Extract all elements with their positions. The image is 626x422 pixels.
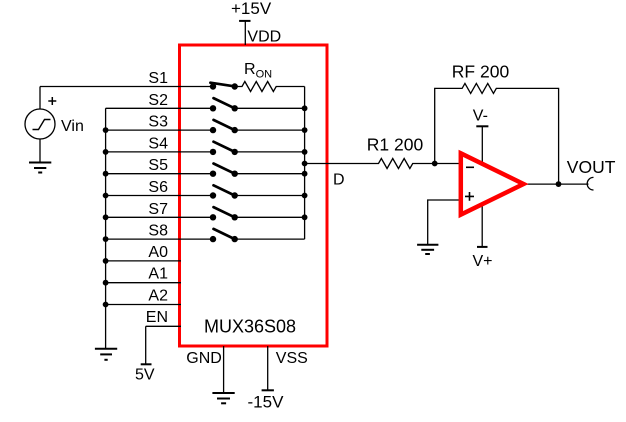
svg-text:VOUT: VOUT (567, 157, 616, 177)
svg-text:V+: V+ (473, 253, 493, 270)
svg-text:S4: S4 (148, 135, 168, 152)
svg-text:RF 200: RF 200 (452, 62, 510, 82)
svg-text:D: D (333, 172, 345, 189)
svg-text:VDD: VDD (247, 29, 281, 46)
svg-text:S1: S1 (148, 70, 168, 87)
svg-text:S6: S6 (148, 179, 168, 196)
svg-text:S5: S5 (148, 157, 168, 174)
svg-text:5V: 5V (135, 367, 155, 384)
svg-text:R1 200: R1 200 (367, 134, 424, 154)
svg-text:MUX36S08: MUX36S08 (204, 316, 296, 336)
svg-text:EN: EN (146, 309, 168, 326)
svg-text:-15V: -15V (248, 392, 285, 411)
svg-text:+15V: +15V (231, 0, 272, 18)
svg-text:S2: S2 (148, 92, 168, 109)
svg-text:VSS: VSS (276, 350, 308, 367)
svg-text:A1: A1 (148, 266, 168, 283)
svg-text:S7: S7 (148, 201, 168, 218)
svg-text:A2: A2 (148, 288, 168, 305)
svg-text:Vin: Vin (61, 118, 84, 135)
svg-text:GND: GND (186, 350, 222, 367)
svg-text:V-: V- (473, 107, 488, 124)
svg-text:S3: S3 (148, 114, 168, 131)
svg-text:S8: S8 (148, 223, 168, 240)
svg-text:A0: A0 (148, 244, 168, 261)
